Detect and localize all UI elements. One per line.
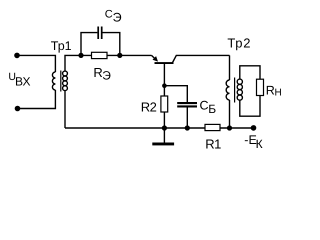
transformer Tp2 core [234,78,236,103]
ground [163,128,165,143]
node base junction [162,83,167,88]
svg-text:Н: Н [275,88,282,99]
node input bottom terminal [15,106,21,112]
wire base lead down [163,64,165,128]
resistor R2 [161,96,168,112]
capacitor Cэ plates [98,27,102,40]
node input top terminal [14,53,20,59]
svg-text:С: С [200,98,209,112]
wire input top [17,55,55,72]
svg-text:Б: Б [208,102,216,116]
resistor Rэ [92,52,108,58]
wire Tp2 secondary top loop to Rн [240,66,260,79]
svg-text:R2: R2 [141,99,157,114]
node Rэ left junction [78,53,83,58]
svg-text:R1: R1 [205,137,221,152]
node Cб bottom junction [185,125,190,130]
svg-text:R: R [266,83,275,97]
wire input bottom [18,90,56,109]
transformer Tp2 primary winding [226,80,229,100]
wire collector down to Tp2 [229,55,231,80]
node Tp2 primary bottom junction [227,125,232,130]
node Rэ right junction [117,53,122,58]
wire base node to C б [164,86,187,102]
svg-text:Э: Э [102,69,111,83]
wire bottom rail [65,127,254,129]
svg-text:ВХ: ВХ [15,75,30,89]
svg-text:Тр2: Тр2 [227,36,251,51]
transistor VT collector [172,55,229,63]
wire Tp2 secondary bottom loop to Rн [240,96,260,117]
svg-text:Тр1: Тр1 [51,39,72,53]
transistor VT emitter with arrow [152,55,156,58]
transistor VT base bar [155,62,174,64]
wire Cб bottom lead [186,108,188,129]
wire Tp1 secondary top to emitter [65,55,152,71]
resistor Rн [257,79,264,95]
transformer Tp1 secondary winding [63,71,68,76]
svg-text:Э: Э [113,10,122,24]
node R2 bottom junction [162,125,167,130]
transformer Tp2 secondary winding [237,79,242,84]
svg-text:С: С [105,9,113,21]
resistor R1 [205,124,220,130]
transformer Tp1 core [60,71,62,92]
transformer Tp1 primary winding [52,72,55,90]
capacitor Cб plates [177,103,197,106]
wire Tp2 primary bottom [229,100,231,128]
wire C э bypass loop [81,33,120,56]
svg-text:К: К [256,137,263,151]
wire Tp1 secondary bottom [64,91,66,129]
node -Ек terminal [251,125,257,131]
